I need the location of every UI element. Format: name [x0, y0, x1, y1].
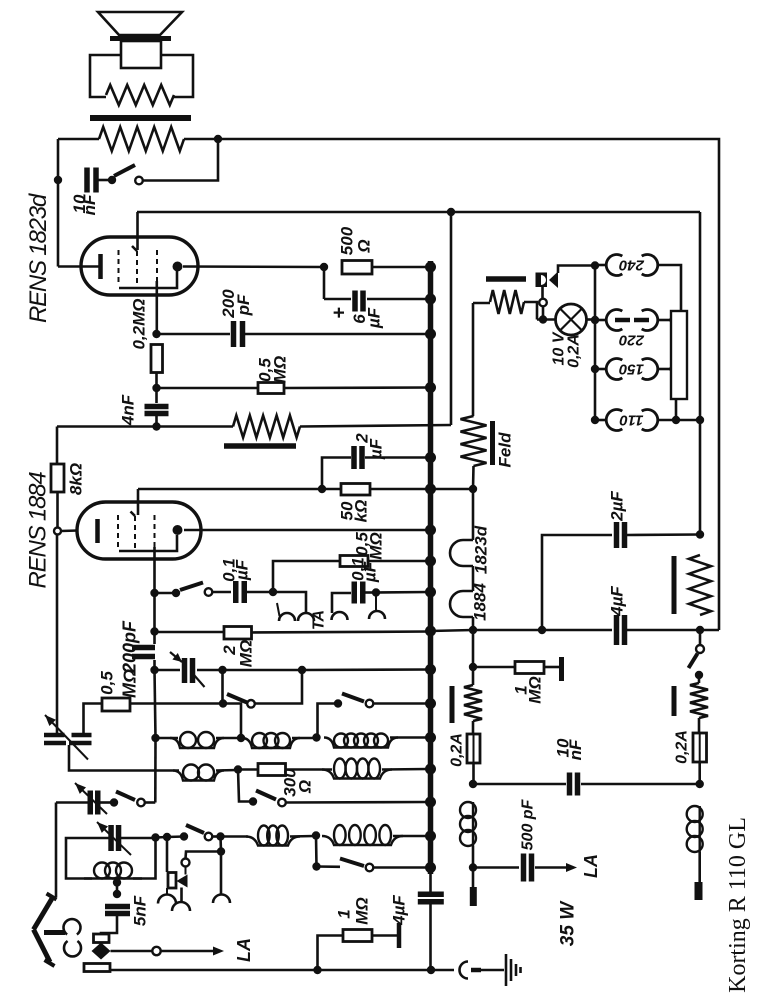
- wire x700 top: [699, 212, 702, 420]
- wire mains switch stub: [542, 307, 545, 317]
- arrow LA1: [213, 947, 224, 956]
- svg-text:LA: LA: [234, 938, 254, 962]
- wire 0,2M to 4nF: [155, 373, 158, 404]
- wire S4 link down: [318, 704, 339, 738]
- speaker magnet: [121, 41, 161, 68]
- resistor barretter zigzag: [690, 683, 708, 718]
- wire lamp stub: [537, 318, 556, 321]
- terminal bar 1Ma: [544, 666, 559, 669]
- svg-text:Ω: Ω: [355, 239, 374, 253]
- terminal TA arc0: [279, 613, 295, 621]
- wire S3 out: [255, 670, 302, 704]
- plug housing: [94, 934, 110, 943]
- wire U1 grid top entry: [136, 212, 139, 250]
- wire padder right: [197, 669, 222, 672]
- wire choke-left: [58, 138, 99, 141]
- wire 4nF bottom: [155, 414, 158, 427]
- capacitor 500pF: [521, 854, 527, 882]
- svg-text:1: 1: [335, 909, 354, 918]
- node 500ohm left: [320, 263, 328, 271]
- socket jaw lower: [64, 941, 81, 956]
- node sel 240: [591, 261, 599, 269]
- tube U1 RENS 1823d envelope: [81, 237, 198, 295]
- antenna symbol: [34, 899, 53, 930]
- wire 2M right: [252, 632, 431, 633]
- svg-text:240: 240: [618, 257, 645, 274]
- wire S3 link down: [223, 704, 241, 739]
- wire LA1 a: [111, 950, 153, 953]
- node row3 a: [151, 833, 159, 841]
- svg-text:Korting R 110 GL: Korting R 110 GL: [725, 817, 751, 993]
- socket jaw upper: [64, 919, 81, 934]
- wire 6uF right: [367, 298, 430, 301]
- wire left feedback vertical: [57, 139, 60, 267]
- svg-text:150: 150: [618, 361, 644, 378]
- switch S1 pivot: [135, 177, 143, 185]
- node sel 150: [591, 365, 599, 373]
- wire 220 right: [658, 319, 672, 322]
- wire 50k right: [370, 488, 430, 491]
- node rail 4uF: [427, 966, 435, 974]
- svg-text:nF: nF: [80, 194, 99, 215]
- wire sel bar bottom: [675, 399, 678, 420]
- wire grid rail y212: [137, 211, 700, 214]
- node sel bar 220: [669, 316, 677, 324]
- resistor 300 Ohm: [258, 764, 286, 776]
- wire U2 cathode row: [184, 529, 430, 532]
- svg-text:0,5: 0,5: [98, 671, 117, 695]
- wire row3 de: [290, 835, 314, 838]
- switch S11 pivot: [205, 588, 213, 596]
- capacitor 5nF: [105, 904, 130, 910]
- wire 1M branch: [473, 666, 515, 669]
- svg-text:pF: pF: [234, 294, 253, 316]
- capacitor 4uF a: [614, 615, 620, 645]
- capacitor osc variable: [88, 791, 94, 815]
- tube U2 anode bar: [95, 519, 100, 543]
- wire U1 bottom exit: [156, 281, 159, 334]
- wire row2 b: [216, 769, 237, 772]
- terminal TA arc2: [332, 612, 348, 620]
- fuse 0,2A a: [467, 734, 480, 763]
- wire 2uF2 right: [627, 533, 700, 536]
- inductor L1a: [170, 738, 224, 748]
- inductor L2a: [173, 771, 224, 781]
- node 0,1b: [372, 588, 380, 596]
- node S10 contact: [312, 862, 320, 870]
- node 670 a: [218, 666, 226, 674]
- wire tap: [116, 883, 119, 895]
- wire 670 mid: [223, 669, 303, 672]
- resistor 8k Ohm: [51, 464, 64, 492]
- wire U2 bottom exit: [153, 547, 156, 593]
- resistor 1M Ohm b: [318, 936, 344, 971]
- inductor L1b: [242, 738, 300, 748]
- wire link 851: [219, 837, 222, 852]
- node ant tap2: [113, 890, 121, 898]
- wire 473 846-867: [472, 846, 475, 868]
- svg-text:4µF: 4µF: [608, 586, 627, 617]
- plug diamond: [92, 943, 111, 960]
- transformer core bar: [90, 115, 191, 121]
- node bus 0,5Mb: [425, 556, 436, 567]
- node 542/630: [538, 626, 546, 634]
- wire fuse2 bottom: [698, 762, 701, 784]
- wire 670 right: [302, 668, 430, 671]
- node 473/667: [469, 663, 477, 671]
- wire arrester tri down: [180, 888, 183, 903]
- wire 10nF-switch: [96, 179, 110, 182]
- svg-text:LA: LA: [581, 854, 601, 878]
- node 700/630: [696, 626, 704, 634]
- resistor AF choke zigzag: [233, 416, 300, 438]
- wire fuse2 top: [698, 718, 701, 733]
- terminal arc A3: [213, 895, 230, 903]
- svg-text:4µF: 4µF: [390, 895, 409, 926]
- svg-text:200pF: 200pF: [120, 620, 140, 674]
- node 700/784: [696, 780, 704, 788]
- wire left column down: [56, 535, 59, 734]
- wire x700 sockets-534: [699, 420, 702, 535]
- tube U2 grid2: [134, 516, 136, 549]
- terminal pin b: [698, 852, 701, 882]
- svg-text:MΩ: MΩ: [353, 897, 372, 924]
- capacitor padder variable: [182, 658, 188, 683]
- node bus S13: [425, 797, 436, 808]
- node S3 contact: [219, 699, 227, 707]
- switch S11 arm: [180, 583, 203, 591]
- jack C: [460, 962, 469, 979]
- wire 6uF left: [324, 298, 351, 301]
- node bus top: [425, 262, 436, 273]
- svg-text:MΩ: MΩ: [120, 669, 140, 698]
- node lamp left: [539, 315, 547, 323]
- fuse 0,2A b: [693, 733, 707, 762]
- wire lamp right: [587, 318, 593, 321]
- node link 851: [217, 847, 225, 855]
- tube U1 cathode dot: [173, 262, 183, 272]
- node row3 c: [216, 832, 224, 840]
- wire 0,5M#3 row: [130, 702, 223, 705]
- switch S9 pivot: [205, 833, 213, 841]
- terminal arc A1: [158, 895, 176, 904]
- node 670 b: [298, 666, 306, 674]
- node row3 b: [163, 833, 171, 841]
- svg-text:MΩ: MΩ: [271, 356, 290, 383]
- node feedback top: [214, 135, 222, 143]
- wire osc right: [98, 801, 111, 804]
- wire TA lead1: [273, 592, 306, 614]
- node TA junction: [269, 588, 277, 596]
- wire row3 ef: [393, 835, 428, 838]
- node row2 m: [234, 765, 242, 773]
- wire 200pF right: [245, 333, 430, 336]
- capacitor 6uF electrolytic: [352, 291, 358, 312]
- wire 0,5M right: [284, 386, 430, 389]
- svg-text:0,2A: 0,2A: [674, 730, 691, 764]
- node 2uF drop: [318, 485, 326, 493]
- wire link 851 left: [186, 852, 222, 859]
- svg-text:0,2MΩ: 0,2MΩ: [130, 298, 149, 349]
- wire cathode row: [183, 265, 324, 268]
- wire S12 down: [698, 675, 701, 683]
- svg-text:2µF: 2µF: [608, 491, 627, 522]
- switch S4 pivot: [366, 700, 374, 708]
- node 473/784: [469, 780, 477, 788]
- choke core bar: [224, 443, 296, 449]
- node 10nF left: [54, 176, 62, 184]
- node bus 703: [425, 698, 436, 709]
- wire 473 630-667: [472, 630, 475, 667]
- wire bus to 4uF: [429, 868, 432, 894]
- node bus 2uF: [425, 452, 436, 463]
- wire 489 bus-473: [430, 488, 473, 491]
- wire arc A1 lead: [166, 888, 168, 895]
- wire row3 bc: [167, 835, 184, 838]
- node grid-leak top: [152, 330, 160, 338]
- wire grid 670-738: [155, 670, 156, 738]
- wire osc left: [56, 801, 90, 804]
- inductor L1c: [324, 738, 398, 748]
- socket 220: [606, 310, 622, 331]
- switch S3 pivot: [247, 700, 255, 708]
- wire S13 link: [238, 770, 252, 802]
- node 473/867: [469, 863, 477, 871]
- switch S8 arm: [116, 792, 135, 801]
- svg-text:1823d: 1823d: [472, 525, 491, 574]
- wire S4 out: [374, 702, 431, 705]
- tube U2 grid1: [117, 515, 119, 549]
- terminal pin a: [472, 871, 475, 887]
- node sel 110: [591, 416, 599, 424]
- terminal arc3: [369, 611, 385, 619]
- capacitor 200pF trimmer: [132, 645, 155, 651]
- svg-text:RENS 1823d: RENS 1823d: [25, 193, 52, 323]
- wire S1 to top rail: [143, 139, 218, 181]
- inductor L2b: [322, 770, 392, 779]
- resistor 0,5M Ohm c: [102, 698, 130, 711]
- heater 1884 bump: [450, 540, 473, 566]
- wire bottom rail: [110, 969, 454, 972]
- node row427: [152, 422, 160, 430]
- node bus row3: [425, 831, 436, 842]
- svg-text:1884: 1884: [471, 583, 490, 621]
- switch S11 contact: [172, 589, 180, 597]
- wire padder left: [155, 669, 181, 672]
- resistor 500 Ohm: [342, 261, 372, 275]
- node bus bottom: [425, 862, 436, 873]
- wire ant tap: [116, 879, 119, 883]
- wire fuse1 bottom: [472, 763, 475, 784]
- node bus 0,5M: [425, 382, 436, 393]
- node bus cathode U2: [425, 525, 436, 536]
- node bus 670: [425, 664, 436, 675]
- wire choke-right: [184, 138, 218, 141]
- wire x451 vertical: [450, 212, 453, 425]
- wire 6uF branch: [323, 267, 326, 299]
- node ant tap1: [113, 878, 121, 886]
- svg-text:MΩ: MΩ: [367, 532, 386, 559]
- svg-text:0,2A: 0,2A: [566, 334, 583, 368]
- wire ant loop: [66, 838, 111, 879]
- tube U1 grid1: [118, 250, 120, 283]
- wire mains res right: [524, 302, 537, 320]
- wire 0,5M left: [157, 387, 259, 390]
- wire 500pF right: [535, 866, 566, 869]
- fuse in 220: [615, 318, 630, 323]
- selector link bar: [671, 311, 687, 399]
- terminal TA arc1: [298, 613, 314, 621]
- bar above mains resistor: [486, 276, 526, 282]
- plug box: [536, 273, 548, 288]
- wire grid cap to tube: [61, 529, 78, 532]
- transformer secondary frame: [90, 55, 121, 97]
- heater mid: [472, 566, 475, 591]
- capacitor 4uF b: [418, 892, 444, 898]
- wire 5nF bottom: [101, 914, 117, 935]
- switch S4 arm: [342, 694, 364, 702]
- node sel 220: [591, 316, 599, 324]
- wire row2 left: [69, 745, 179, 771]
- switch S10 pivot: [366, 864, 374, 872]
- capacitor 10nF: [84, 168, 90, 193]
- resistor 2M Ohm: [224, 627, 252, 640]
- terminal LA1 circle: [152, 947, 160, 955]
- inductor LA choke a: [472, 802, 474, 846]
- jack pin: [471, 968, 481, 973]
- wire to ground: [481, 969, 504, 972]
- wire 0,5M#2 branch: [273, 561, 340, 592]
- wire row2 c: [238, 768, 258, 771]
- wire 500ohm right: [372, 266, 430, 269]
- node 1884 grid switch: [150, 589, 158, 597]
- node rail 1M: [313, 966, 321, 974]
- wire LA1 b: [161, 950, 213, 953]
- svg-text:µF: µF: [361, 561, 380, 583]
- wire ant column: [55, 803, 58, 898]
- inductor LA choke b: [699, 806, 701, 852]
- node row1 left: [151, 734, 159, 742]
- switch S1 arm: [114, 165, 135, 176]
- wire 473 667-685: [472, 667, 475, 685]
- wire row630 c: [627, 629, 700, 632]
- capacitor 0,1uF a: [233, 581, 239, 603]
- resistor 0,5M Ohm: [258, 383, 284, 394]
- tube U1 grid2 lead tick: [132, 246, 137, 251]
- heater line: [472, 489, 475, 540]
- wire 2uF right: [365, 456, 430, 459]
- wire S12 stub: [699, 634, 702, 645]
- wire 10nF right: [581, 783, 700, 786]
- resistor Feld field coil: [461, 416, 487, 466]
- switch mains pivot: [539, 299, 547, 307]
- rail terminal lug: [84, 964, 110, 972]
- socket 110: [606, 410, 622, 431]
- svg-text:µF: µF: [233, 559, 252, 581]
- svg-text:0,2A: 0,2A: [449, 733, 466, 767]
- node y212/x451: [447, 208, 455, 216]
- node bus 6uF: [425, 294, 436, 305]
- wire row427 mid: [157, 425, 234, 428]
- wire 2M left: [155, 631, 225, 634]
- node 473/489: [469, 485, 477, 493]
- wire fuse1 top: [472, 721, 475, 734]
- wire grid line 593-631: [153, 593, 156, 632]
- node 473/630: [469, 626, 477, 634]
- switch S8 pivot: [137, 799, 145, 807]
- wire selector column: [594, 266, 597, 421]
- resistor output-choke zigzag: [99, 127, 184, 151]
- node 2M row: [150, 627, 158, 635]
- capacitor 200pF: [231, 321, 237, 347]
- wire feld bottom: [472, 466, 475, 489]
- wire 500pF row: [473, 866, 519, 869]
- resistor 0,2M Ohm: [151, 345, 163, 373]
- wire ant coil right: [133, 838, 156, 879]
- node 700/534: [696, 530, 704, 538]
- node S13 contact: [249, 797, 257, 805]
- resistor 0,5M Ohm b: [340, 556, 368, 567]
- node bus 592: [425, 587, 436, 598]
- node bus row2: [425, 764, 436, 775]
- wire row3 ab: [156, 836, 168, 839]
- lamp 10V 0,2A: [556, 304, 587, 335]
- inductor L3a: [246, 837, 300, 846]
- svg-text:5nF: 5nF: [131, 895, 150, 926]
- ground symbol: [505, 954, 508, 986]
- plug triangle: [549, 272, 558, 289]
- speaker cone: [98, 12, 182, 35]
- wire 0,5Mb right: [368, 560, 430, 563]
- wire 0,1b right: [364, 591, 372, 594]
- tube U2 cathode connector: [119, 535, 177, 551]
- wire to S11 contact: [155, 592, 177, 595]
- tuning cap C1 bottom plates: [44, 741, 66, 746]
- tube U2 grid3: [154, 515, 156, 547]
- tube U1 grid2: [136, 251, 138, 283]
- heater bottom: [472, 617, 475, 630]
- arrow LA2: [566, 863, 577, 872]
- wire S9 out: [213, 835, 220, 838]
- wire to bus 592: [376, 591, 430, 594]
- wire row2 d: [286, 768, 333, 771]
- inductor L3b: [322, 836, 403, 845]
- switch S1 contact: [108, 176, 116, 184]
- switch S13 arm: [256, 791, 276, 800]
- node padder row: [150, 666, 158, 674]
- wire row1 b: [216, 737, 240, 740]
- switch S10 arm: [340, 859, 364, 867]
- svg-text:35 W: 35 W: [558, 900, 579, 946]
- wire 10nF row: [473, 783, 566, 786]
- svg-text:TA: TA: [311, 610, 328, 630]
- capacitor 4nF: [145, 404, 169, 410]
- svg-text:4nF: 4nF: [119, 394, 138, 426]
- svg-text:Ω: Ω: [296, 780, 315, 794]
- node row1 m2: [312, 733, 320, 741]
- wire S10 link: [315, 836, 318, 867]
- wire row2 e: [382, 768, 428, 771]
- wire grid 631-646: [153, 632, 156, 645]
- wire row630 a: [430, 630, 473, 631]
- arrester tube: [168, 873, 176, 889]
- wire mains res left: [473, 302, 490, 305]
- node 676/420: [672, 416, 680, 424]
- arrester triangle: [177, 875, 188, 888]
- wire row1 d: [390, 736, 428, 739]
- tube U2 grid2 lead tick: [131, 512, 136, 517]
- wire link to arc: [220, 852, 223, 895]
